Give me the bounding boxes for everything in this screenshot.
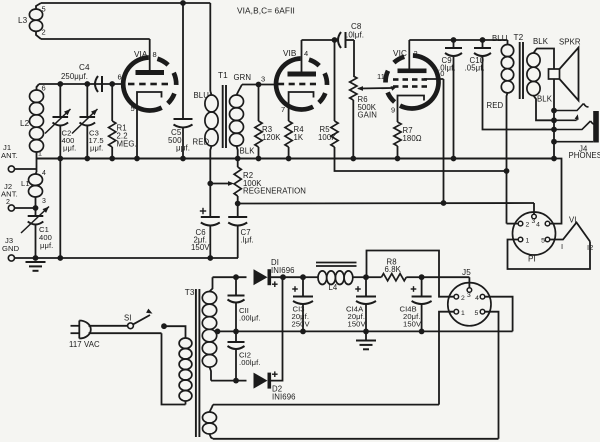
svg-text:100K: 100K <box>318 133 337 142</box>
svg-text:L3: L3 <box>18 16 28 25</box>
svg-text:μμf.: μμf. <box>63 144 76 153</box>
svg-text:SI: SI <box>124 314 132 323</box>
svg-text:2: 2 <box>526 222 530 229</box>
svg-text:4: 4 <box>42 170 46 177</box>
svg-text:6: 6 <box>118 73 122 82</box>
svg-text:2: 2 <box>414 49 418 58</box>
svg-text:3: 3 <box>532 218 536 225</box>
svg-text:μμf.: μμf. <box>90 144 103 153</box>
svg-text:μμf.: μμf. <box>40 241 53 250</box>
svg-text:VIA: VIA <box>134 50 148 59</box>
svg-text:INI696: INI696 <box>272 392 296 401</box>
svg-text:I: I <box>561 242 563 251</box>
svg-text:.05μf.: .05μf. <box>465 64 485 73</box>
svg-text:5: 5 <box>42 5 46 14</box>
svg-text:.0lμf.: .0lμf. <box>438 64 456 73</box>
svg-text:RED: RED <box>193 138 210 147</box>
svg-text:4: 4 <box>536 222 540 229</box>
svg-text:180Ω: 180Ω <box>403 134 422 143</box>
svg-text:2: 2 <box>461 295 465 302</box>
svg-text:T3: T3 <box>185 288 195 297</box>
svg-text:8: 8 <box>153 50 157 59</box>
svg-text:BLK: BLK <box>533 37 549 46</box>
svg-text:2: 2 <box>6 199 10 206</box>
svg-text:J5: J5 <box>462 268 471 277</box>
svg-text:VIA,B,C= 6AFII: VIA,B,C= 6AFII <box>237 6 295 16</box>
svg-text:ANT.: ANT. <box>1 190 18 199</box>
svg-text:C4: C4 <box>79 63 90 72</box>
svg-text:.00lμf.: .00lμf. <box>239 314 261 323</box>
svg-text:6.8K: 6.8K <box>385 265 402 274</box>
svg-text:4: 4 <box>475 295 479 302</box>
svg-text:VIC: VIC <box>393 49 407 58</box>
svg-text:REGENERATION: REGENERATION <box>243 187 306 196</box>
svg-text:150V: 150V <box>403 320 422 329</box>
svg-text:9: 9 <box>391 106 395 115</box>
svg-text:5: 5 <box>131 104 135 113</box>
svg-text:RED: RED <box>487 101 504 110</box>
svg-text:6: 6 <box>42 84 46 93</box>
svg-text:1: 1 <box>526 238 530 245</box>
svg-text:GRN: GRN <box>234 73 252 82</box>
svg-text:T2: T2 <box>514 33 524 42</box>
svg-text:1: 1 <box>38 151 42 158</box>
svg-text:120K: 120K <box>262 133 281 142</box>
svg-text:1K: 1K <box>294 133 304 142</box>
svg-text:L1: L1 <box>21 179 30 188</box>
svg-text:PI: PI <box>528 255 536 264</box>
svg-text:250V: 250V <box>292 320 311 329</box>
svg-text:SPKR: SPKR <box>559 38 581 47</box>
svg-text:μμf.: μμf. <box>176 144 190 153</box>
svg-text:VIB: VIB <box>283 49 297 58</box>
svg-text:ANT.: ANT. <box>1 151 18 160</box>
svg-text:250μμf.: 250μμf. <box>61 72 88 81</box>
svg-text:BLU: BLU <box>194 91 210 100</box>
svg-text:PHONES: PHONES <box>569 151 600 160</box>
svg-text:BLK: BLK <box>537 95 553 104</box>
svg-text:T1: T1 <box>218 71 228 80</box>
svg-text:GAIN: GAIN <box>358 111 377 120</box>
svg-text:INI696: INI696 <box>271 266 295 275</box>
svg-text:150V: 150V <box>348 320 367 329</box>
svg-text:BLK: BLK <box>240 147 256 156</box>
svg-text:.00lμf.: .00lμf. <box>239 358 261 367</box>
svg-text:3: 3 <box>467 292 471 299</box>
svg-text:.lμf.: .lμf. <box>241 236 254 245</box>
svg-text:.0lμf.: .0lμf. <box>346 31 364 40</box>
svg-text:2: 2 <box>42 28 46 37</box>
svg-text:5: 5 <box>475 310 479 317</box>
svg-text:I2: I2 <box>587 243 593 252</box>
svg-text:L4: L4 <box>329 283 338 292</box>
svg-text:7: 7 <box>281 105 285 114</box>
svg-text:MEG.: MEG. <box>117 140 137 149</box>
svg-text:1: 1 <box>461 310 465 317</box>
svg-text:BLU: BLU <box>492 34 508 43</box>
svg-text:VI: VI <box>569 216 577 225</box>
svg-text:3: 3 <box>42 198 46 205</box>
svg-text:L2: L2 <box>20 119 30 128</box>
svg-text:150V: 150V <box>191 243 210 252</box>
svg-text:5: 5 <box>541 238 545 245</box>
svg-text:117 VAC: 117 VAC <box>69 340 100 349</box>
svg-text:GND: GND <box>2 244 20 253</box>
svg-text:4: 4 <box>304 49 308 58</box>
svg-text:3: 3 <box>261 75 265 84</box>
